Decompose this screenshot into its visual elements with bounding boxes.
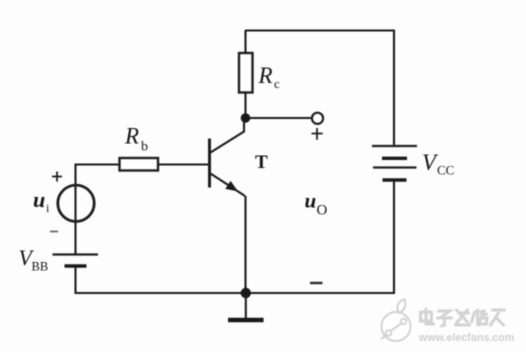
label plus at ui — [52, 172, 62, 182]
node collector junction — [241, 113, 251, 123]
label VBB — [19, 245, 49, 274]
svg-text:CC: CC — [437, 163, 454, 178]
transistor T emitter lead — [211, 174, 246, 197]
label T — [255, 152, 268, 173]
wire left branch below VBB — [74, 266, 76, 294]
label minus at ui — [50, 231, 58, 233]
svg-text:b: b — [141, 140, 148, 155]
wire base branch horizontal — [75, 163, 209, 165]
battery VBB — [53, 255, 99, 267]
transistor T emitter arrow — [225, 181, 238, 192]
wire collector node to output terminal — [246, 117, 312, 119]
transistor T base bar — [208, 139, 211, 188]
label Rb — [124, 124, 148, 155]
svg-text:BB: BB — [32, 260, 49, 274]
wire Rc top stub — [244, 31, 246, 54]
wire right rail lower (Vcc bottom to ground rail) — [393, 181, 395, 295]
wire bottom rail — [75, 292, 396, 294]
svg-text:u: u — [305, 189, 317, 213]
svg-text:u: u — [33, 187, 45, 212]
watermark text url — [418, 332, 514, 344]
resistor Rb — [120, 158, 159, 171]
wire emitter down to ground node — [244, 196, 246, 293]
svg-text:O: O — [317, 203, 328, 219]
label minus at output — [310, 282, 323, 284]
source ui — [58, 185, 94, 221]
battery VCC — [372, 146, 417, 180]
wire top rail from Rc to Vcc — [245, 29, 394, 31]
label VCC — [422, 150, 454, 178]
label Rc — [258, 63, 281, 91]
svg-text:T: T — [255, 152, 268, 173]
node emitter ground junction — [241, 288, 251, 298]
wire left branch vertical through source — [74, 164, 76, 255]
svg-text:R: R — [124, 124, 139, 149]
watermark text chinese — [421, 309, 505, 326]
wire Rc bottom to collector node — [244, 93, 246, 119]
label plus at output — [312, 128, 323, 140]
svg-text:c: c — [274, 76, 280, 91]
ground — [228, 293, 264, 320]
svg-text:www.elecfans.com: www.elecfans.com — [418, 332, 514, 344]
label uO — [305, 189, 328, 219]
watermark logo — [381, 300, 411, 342]
transistor T collector lead — [211, 116, 245, 153]
label ui — [33, 187, 50, 215]
svg-text:R: R — [258, 63, 273, 88]
resistor Rc — [239, 53, 253, 93]
wire right rail upper (Vcc top) — [393, 30, 395, 147]
output terminal — [312, 113, 323, 124]
